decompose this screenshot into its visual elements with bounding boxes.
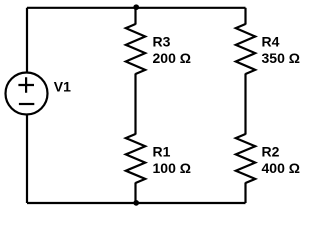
- wire left vertical bottom (V1 bottom to bottom rail): [26, 115, 28, 204]
- voltage source V1 circle: [6, 73, 48, 115]
- svg-text:R4: R4: [262, 34, 280, 50]
- svg-text:350 Ω: 350 Ω: [262, 50, 300, 66]
- wire branch2 middle (R4 to R2): [244, 74, 246, 135]
- svg-text:100 Ω: 100 Ω: [153, 160, 191, 176]
- resistor R4: [236, 24, 255, 74]
- node bottom junction: [133, 200, 139, 206]
- V1 minus sign: [19, 103, 34, 105]
- wire branch2 bottom lead: [244, 183, 246, 204]
- svg-text:200 Ω: 200 Ω: [153, 50, 191, 66]
- node top junction: [133, 4, 139, 10]
- resistor R2: [236, 134, 255, 183]
- wire bottom horizontal: [27, 202, 246, 204]
- svg-text:R1: R1: [153, 144, 171, 160]
- svg-text:V1: V1: [54, 79, 71, 95]
- wire branch1 top lead: [134, 8, 136, 25]
- wire branch1 bottom lead: [134, 183, 136, 204]
- svg-text:R3: R3: [153, 34, 171, 50]
- wire left vertical top (V1 top to top rail): [26, 8, 28, 73]
- svg-text:R2: R2: [262, 144, 280, 160]
- wire branch1 middle (R3 to R1): [134, 74, 136, 135]
- svg-text:400 Ω: 400 Ω: [262, 160, 300, 176]
- V1 plus sign: [18, 77, 34, 93]
- wire branch2 top lead: [244, 8, 246, 25]
- resistor R1: [126, 134, 145, 183]
- wire top horizontal: [27, 7, 246, 9]
- resistor R3: [126, 24, 145, 74]
